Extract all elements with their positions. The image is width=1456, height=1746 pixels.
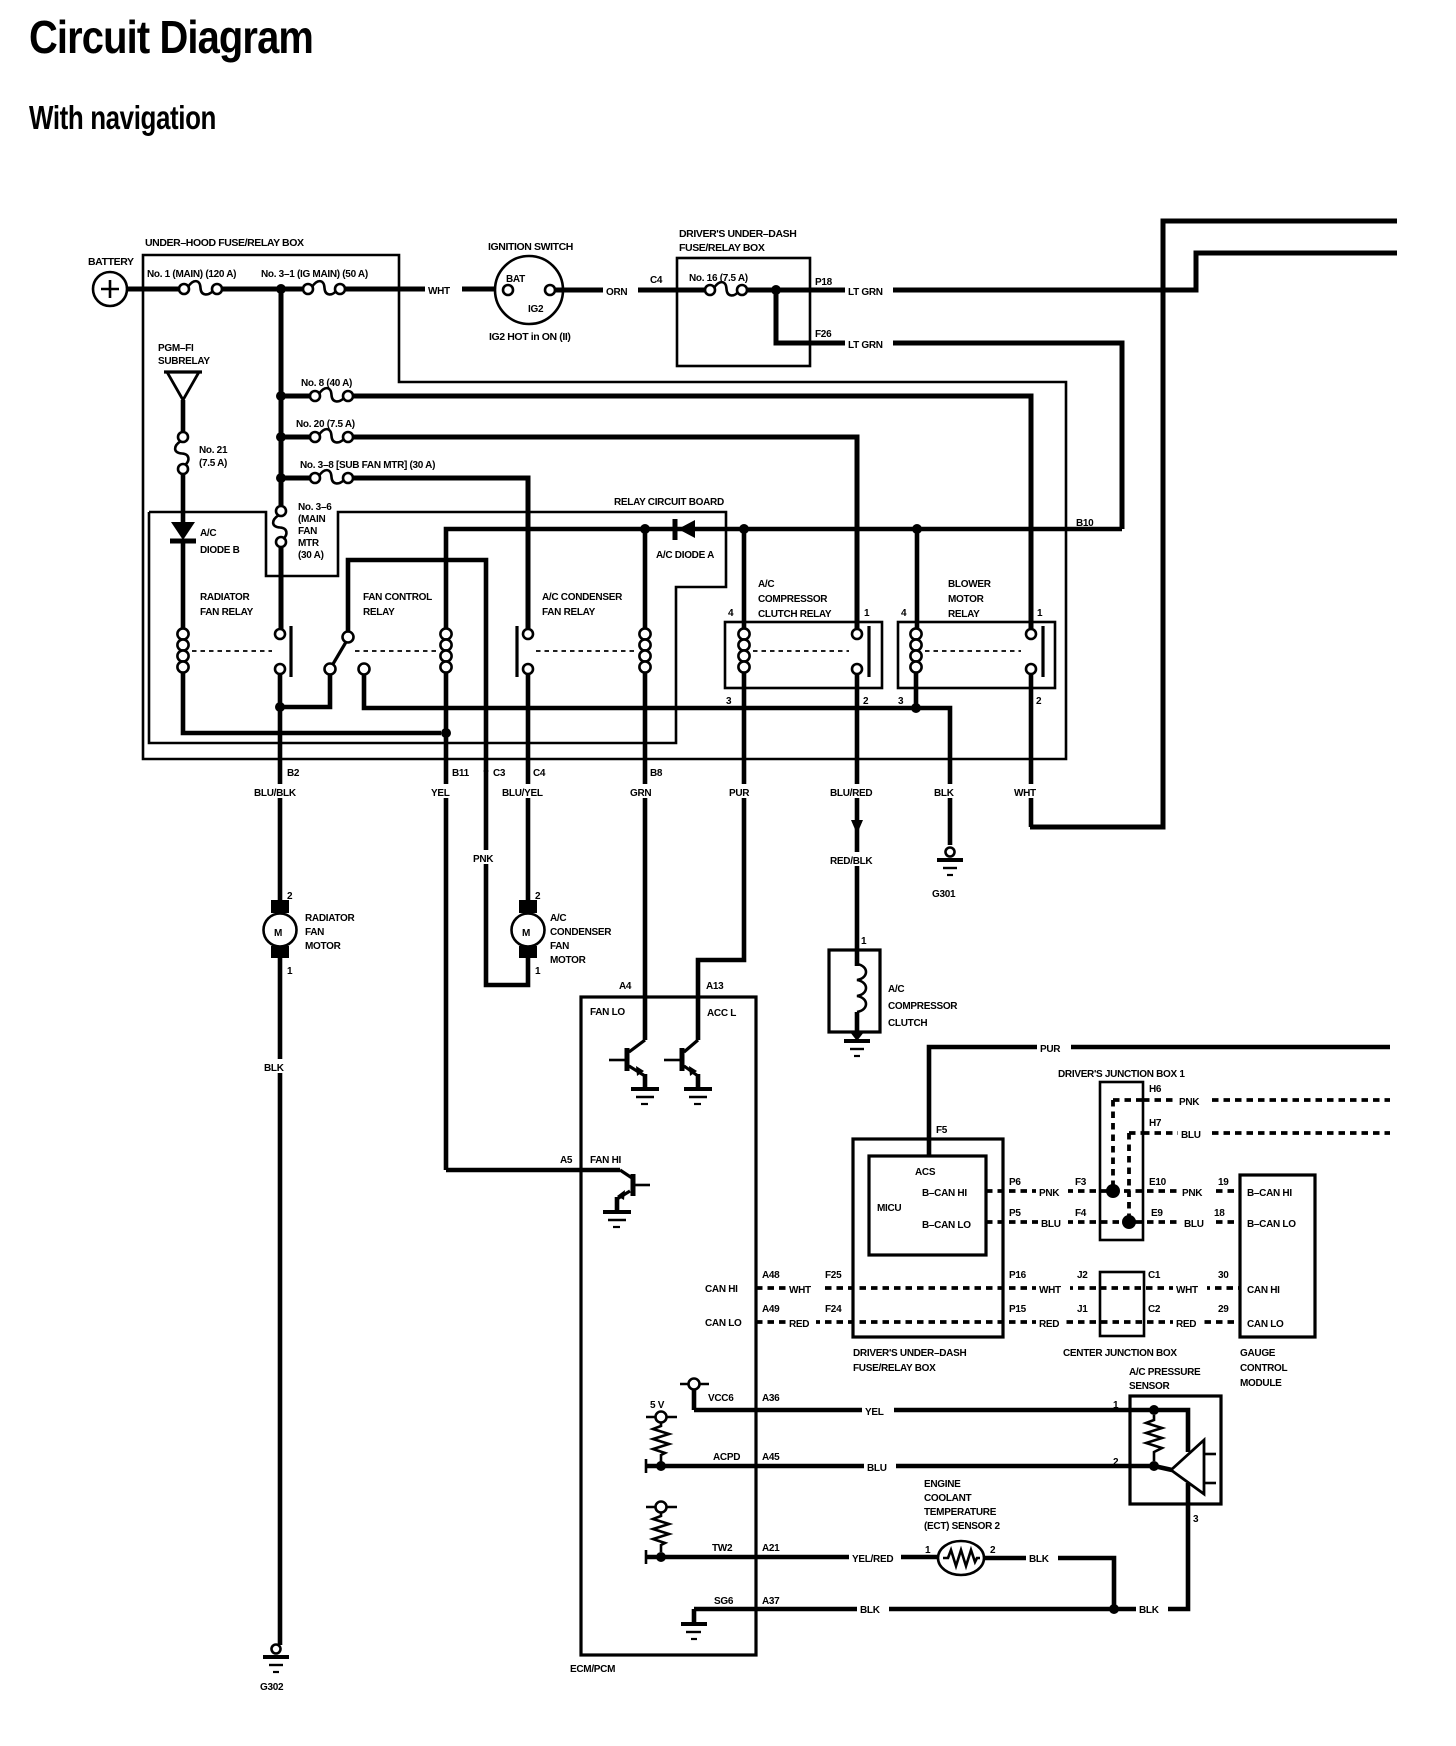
wire No.3-6 to radiator relay contact bbox=[279, 547, 284, 629]
svg-text:YEL/RED: YEL/RED bbox=[852, 1554, 893, 1565]
svg-text:A/C PRESSURE: A/C PRESSURE bbox=[1129, 1367, 1201, 1378]
svg-text:ACC L: ACC L bbox=[707, 1008, 736, 1019]
svg-text:No. 21: No. 21 bbox=[199, 445, 228, 456]
wire radiator coil bottom to B11 bus bbox=[183, 673, 441, 733]
svg-text:4: 4 bbox=[901, 608, 907, 619]
svg-text:P15: P15 bbox=[1009, 1304, 1027, 1315]
svg-text:2: 2 bbox=[535, 891, 541, 902]
svg-text:CONDENSER: CONDENSER bbox=[550, 927, 612, 938]
svg-text:IG2 HOT in ON (II): IG2 HOT in ON (II) bbox=[489, 331, 570, 343]
ground G302 bbox=[272, 1645, 281, 1654]
ground SG6 bbox=[692, 1609, 697, 1623]
svg-text:ACPD: ACPD bbox=[713, 1452, 740, 1463]
center junction box bbox=[1100, 1272, 1144, 1336]
node No.3-8 junction bbox=[276, 473, 286, 483]
wire fan control right contact to ground bus bbox=[364, 674, 950, 845]
svg-text:1: 1 bbox=[1113, 1400, 1119, 1411]
node sensor pin2 bbox=[1149, 1461, 1159, 1471]
wire subrelay to fuse No.21 bbox=[181, 400, 186, 432]
svg-text:SUBRELAY: SUBRELAY bbox=[158, 356, 210, 367]
svg-text:MOTOR: MOTOR bbox=[948, 594, 985, 605]
driver's under-dash fuse/relay box (top) bbox=[677, 258, 810, 366]
wire fan control coil top to feed bus bbox=[446, 529, 1122, 629]
svg-text:2: 2 bbox=[287, 891, 293, 902]
svg-text:P18: P18 bbox=[815, 277, 833, 288]
svg-text:BLU/YEL: BLU/YEL bbox=[502, 788, 543, 799]
svg-text:P16: P16 bbox=[1009, 1270, 1027, 1281]
svg-text:FAN: FAN bbox=[305, 927, 324, 938]
label WHT (blower) bbox=[1012, 784, 1050, 798]
wire SG6 BLK to pressure sensor pin3 bbox=[694, 1483, 1188, 1609]
label BLK (G301) bbox=[932, 784, 965, 798]
svg-text:IGNITION SWITCH: IGNITION SWITCH bbox=[488, 241, 573, 253]
svg-text:G302: G302 bbox=[260, 1682, 284, 1693]
svg-text:PNK: PNK bbox=[1179, 1097, 1200, 1108]
svg-text:CENTER JUNCTION BOX: CENTER JUNCTION BOX bbox=[1063, 1348, 1177, 1359]
svg-text:A/C: A/C bbox=[758, 579, 774, 590]
svg-text:RADIATOR: RADIATOR bbox=[200, 592, 251, 603]
wire blower coil feed down bbox=[915, 529, 920, 629]
battery bbox=[93, 272, 127, 306]
label BLU/YEL bbox=[500, 784, 556, 798]
svg-text:COMPRESSOR: COMPRESSOR bbox=[888, 1001, 958, 1012]
svg-text:1: 1 bbox=[1037, 608, 1043, 619]
wire condenser contact bottom to C4 bbox=[526, 674, 531, 900]
svg-text:2: 2 bbox=[1113, 1457, 1119, 1468]
svg-text:A37: A37 bbox=[762, 1596, 780, 1607]
svg-text:BLU/RED: BLU/RED bbox=[830, 788, 872, 799]
transistor ACC L bbox=[684, 1040, 698, 1052]
svg-text:CLUTCH RELAY: CLUTCH RELAY bbox=[758, 609, 832, 620]
svg-text:2: 2 bbox=[863, 696, 869, 707]
motor radiator fan motor bbox=[271, 900, 289, 913]
svg-text:BLU/BLK: BLU/BLK bbox=[254, 788, 297, 799]
fuse No.3-6 (MAIN FAN MTR) (30 A) vertical bbox=[276, 506, 286, 516]
svg-text:BLK: BLK bbox=[934, 788, 955, 799]
svg-text:E10: E10 bbox=[1149, 1177, 1167, 1188]
wire diode B to radiator relay coil bbox=[181, 543, 186, 629]
label BLU/RED bbox=[828, 784, 886, 798]
svg-text:WHT: WHT bbox=[428, 286, 450, 297]
contact condenser fan relay bbox=[523, 629, 533, 639]
node compressor coil feed bbox=[739, 524, 749, 534]
label BLK (sensor ground) bbox=[1136, 1602, 1168, 1615]
svg-text:A21: A21 bbox=[762, 1543, 780, 1554]
contact radiator relay bbox=[275, 629, 285, 639]
node TW2 junction bbox=[656, 1552, 666, 1562]
svg-text:P5: P5 bbox=[1009, 1208, 1021, 1219]
relay circuit board outline bbox=[149, 512, 726, 743]
svg-text:RELAY CIRCUIT BOARD: RELAY CIRCUIT BOARD bbox=[614, 497, 724, 508]
svg-text:ACS: ACS bbox=[915, 1167, 936, 1178]
label WHT bbox=[425, 283, 462, 296]
svg-text:YEL: YEL bbox=[431, 788, 450, 799]
svg-text:1: 1 bbox=[535, 966, 541, 977]
svg-text:FUSE/RELAY BOX: FUSE/RELAY BOX bbox=[853, 1363, 936, 1374]
svg-text:1: 1 bbox=[864, 608, 870, 619]
svg-text:J1: J1 bbox=[1077, 1304, 1088, 1315]
svg-text:BLU: BLU bbox=[1184, 1219, 1204, 1230]
svg-text:CAN LO: CAN LO bbox=[705, 1318, 742, 1329]
wire No.20 row to compressor clutch relay contact bbox=[353, 437, 857, 629]
label RED/BLK bbox=[827, 852, 887, 866]
svg-text:WHT: WHT bbox=[1039, 1285, 1061, 1296]
svg-text:WHT: WHT bbox=[1014, 788, 1036, 799]
contact compressor clutch relay bbox=[852, 629, 862, 639]
coil compressor clutch relay bbox=[738, 628, 749, 639]
label BLU/BLK bbox=[251, 784, 309, 798]
svg-text:CLUTCH: CLUTCH bbox=[888, 1018, 927, 1029]
svg-text:DIODE B: DIODE B bbox=[200, 545, 240, 556]
svg-text:A13: A13 bbox=[706, 981, 724, 992]
MICU box bbox=[869, 1156, 986, 1255]
wire pin1 to amplifier top bbox=[1154, 1410, 1188, 1452]
svg-text:M: M bbox=[274, 928, 282, 939]
svg-text:WHT: WHT bbox=[789, 1285, 811, 1296]
svg-text:A4: A4 bbox=[619, 981, 632, 992]
svg-text:PUR: PUR bbox=[1040, 1044, 1061, 1055]
wire P18 LT GRN to top right bbox=[810, 253, 1397, 290]
wire fuse16 to P18 bbox=[747, 288, 810, 293]
wire No.3-8 row to condenser fan contact bbox=[353, 478, 528, 629]
svg-text:(MAIN: (MAIN bbox=[298, 514, 325, 525]
svg-text:30: 30 bbox=[1218, 1270, 1229, 1281]
wire ignition to driver's box bbox=[555, 288, 677, 293]
resistor pressure sensor bbox=[1146, 1415, 1162, 1461]
coil blower motor relay bbox=[910, 628, 921, 639]
svg-text:RADIATOR: RADIATOR bbox=[305, 913, 356, 924]
svg-text:LT GRN: LT GRN bbox=[848, 340, 883, 351]
svg-text:A/C: A/C bbox=[200, 528, 216, 539]
wire condenser coil bottom to B8 bbox=[643, 672, 648, 1040]
TW2 terminal bbox=[646, 1506, 677, 1509]
svg-text:MOTOR: MOTOR bbox=[550, 955, 587, 966]
amplifier triangle pressure sensor bbox=[1171, 1440, 1204, 1494]
svg-text:18: 18 bbox=[1214, 1208, 1225, 1219]
ECM/PCM box bbox=[581, 997, 756, 1655]
svg-text:RED: RED bbox=[1176, 1319, 1196, 1330]
svg-text:M: M bbox=[522, 928, 530, 939]
under-hood fuse/relay box outline bbox=[143, 255, 1066, 759]
svg-text:B–CAN HI: B–CAN HI bbox=[1247, 1188, 1292, 1199]
label GRN bbox=[628, 784, 663, 798]
node ACPD junction bbox=[656, 1461, 666, 1471]
wire main vertical bus bbox=[279, 289, 284, 506]
svg-text:ECM/PCM: ECM/PCM bbox=[570, 1664, 615, 1675]
svg-text:H7: H7 bbox=[1149, 1118, 1162, 1129]
svg-text:BAT: BAT bbox=[506, 274, 525, 285]
svg-text:F24: F24 bbox=[825, 1304, 842, 1315]
coil condenser fan relay bbox=[639, 628, 650, 639]
wire B-CAN LO dashed BLU bbox=[986, 1220, 1240, 1224]
svg-text:B11: B11 bbox=[452, 768, 470, 779]
svg-text:TW2: TW2 bbox=[712, 1543, 733, 1554]
svg-text:No. 3–1 (IG MAIN) (50 A): No. 3–1 (IG MAIN) (50 A) bbox=[261, 269, 368, 280]
svg-text:BLU: BLU bbox=[1181, 1130, 1201, 1141]
svg-text:B–CAN LO: B–CAN LO bbox=[1247, 1219, 1296, 1230]
wire fuse3-1 to ignition switch bbox=[345, 287, 503, 292]
wire F26 LT GRN to B10 bbox=[810, 343, 1122, 529]
wire ECT BLK to BLK junction bbox=[984, 1558, 1114, 1609]
svg-text:MOTOR: MOTOR bbox=[305, 941, 342, 952]
svg-text:3: 3 bbox=[1193, 1514, 1199, 1525]
ground G301 bbox=[946, 848, 955, 857]
svg-text:B2: B2 bbox=[287, 768, 300, 779]
svg-text:CAN HI: CAN HI bbox=[1247, 1285, 1280, 1296]
resistor (pull-up TW2) bbox=[653, 1512, 669, 1552]
svg-text:E9: E9 bbox=[1151, 1208, 1163, 1219]
node blower coil feed bbox=[912, 524, 922, 534]
svg-text:DRIVER'S JUNCTION BOX 1: DRIVER'S JUNCTION BOX 1 bbox=[1058, 1069, 1185, 1080]
coil fan control relay bbox=[440, 628, 451, 639]
svg-text:5 V: 5 V bbox=[650, 1400, 665, 1411]
wire fuse No.21 to diode B bbox=[181, 474, 186, 522]
svg-text:With navigation: With navigation bbox=[29, 99, 216, 136]
relay A/C compressor clutch relay bbox=[725, 622, 882, 688]
svg-text:FAN: FAN bbox=[298, 526, 317, 537]
wire condenser coil feed down bbox=[643, 529, 648, 629]
wire battery to fuse box bbox=[127, 287, 179, 292]
svg-text:GRN: GRN bbox=[630, 788, 651, 799]
svg-text:B8: B8 bbox=[650, 768, 663, 779]
svg-text:CAN LO: CAN LO bbox=[1247, 1319, 1284, 1330]
wire compressor contact bottom BLU/RED bbox=[855, 674, 860, 950]
wire pin2 to amplifier apex bbox=[1154, 1466, 1172, 1470]
svg-text:LT GRN: LT GRN bbox=[848, 287, 883, 298]
svg-text:A/C CONDENSER: A/C CONDENSER bbox=[542, 592, 623, 603]
svg-text:BLK: BLK bbox=[860, 1605, 881, 1616]
svg-text:4: 4 bbox=[728, 608, 734, 619]
label PNK (C3 wire) bbox=[471, 850, 505, 864]
coil clutch bbox=[855, 950, 860, 966]
svg-text:A/C: A/C bbox=[888, 984, 904, 995]
svg-text:F25: F25 bbox=[825, 1270, 842, 1281]
svg-text:PNK: PNK bbox=[1182, 1188, 1203, 1199]
transistor FAN LO bbox=[629, 1040, 645, 1052]
svg-text:RED: RED bbox=[1039, 1319, 1059, 1330]
label PUR bbox=[727, 784, 761, 798]
svg-text:A48: A48 bbox=[762, 1270, 780, 1281]
svg-text:F3: F3 bbox=[1075, 1177, 1087, 1188]
svg-text:F4: F4 bbox=[1075, 1208, 1087, 1219]
node condenser coil feed bbox=[640, 524, 650, 534]
svg-text:MODULE: MODULE bbox=[1240, 1378, 1282, 1389]
svg-text:RELAY: RELAY bbox=[363, 607, 395, 618]
svg-text:VCC6: VCC6 bbox=[708, 1393, 734, 1404]
node main bus junction bbox=[276, 284, 286, 294]
svg-text:RED: RED bbox=[789, 1319, 809, 1330]
node blower coil pin3 junction bbox=[911, 703, 921, 713]
wire VCC6 YEL to pressure sensor pin1 bbox=[694, 1408, 1154, 1413]
node F26 branch junction bbox=[771, 285, 781, 295]
wire No.8 row to blower contact bbox=[353, 396, 1031, 629]
stub tick ACPD bbox=[645, 1459, 648, 1473]
motor A/C condenser fan motor bbox=[519, 900, 537, 913]
svg-text:UNDER–HOOD FUSE/RELAY BOX: UNDER–HOOD FUSE/RELAY BOX bbox=[145, 237, 304, 249]
A/C compressor clutch bbox=[829, 950, 880, 1032]
wire H7 dashed BLU off-page bbox=[1143, 1131, 1390, 1135]
svg-text:A/C DIODE A: A/C DIODE A bbox=[656, 550, 714, 561]
wire B2 down to radiator fan motor bbox=[278, 707, 283, 900]
svg-text:BLU: BLU bbox=[867, 1463, 887, 1474]
svg-text:ORN: ORN bbox=[606, 287, 627, 298]
svg-text:C2: C2 bbox=[1148, 1304, 1161, 1315]
svg-text:(ECT) SENSOR 2: (ECT) SENSOR 2 bbox=[924, 1521, 1001, 1532]
wire blower coil bottom to ground bus bbox=[914, 672, 919, 708]
svg-text:PNK: PNK bbox=[1039, 1188, 1060, 1199]
svg-text:A36: A36 bbox=[762, 1393, 780, 1404]
wire compressor coil feed down bbox=[742, 529, 747, 629]
switch fan control relay bbox=[343, 632, 354, 643]
svg-text:C4: C4 bbox=[533, 768, 546, 779]
wire CAN LO dashed RED bbox=[756, 1320, 1240, 1324]
wire blower contact bottom WHT bbox=[1029, 674, 1034, 827]
svg-text:PUR: PUR bbox=[729, 788, 750, 799]
svg-text:IG2: IG2 bbox=[528, 304, 544, 315]
node No.20 junction bbox=[276, 432, 286, 442]
wire C3 PNK to condenser motor pin1 bbox=[486, 770, 528, 985]
svg-text:FAN RELAY: FAN RELAY bbox=[200, 607, 254, 618]
svg-text:No. 3–8 [SUB FAN MTR] (30 A): No. 3–8 [SUB FAN MTR] (30 A) bbox=[300, 460, 435, 471]
wire fuse1 to junction bbox=[222, 287, 302, 292]
node splice BLU bbox=[1122, 1215, 1136, 1229]
svg-text:2: 2 bbox=[1036, 696, 1042, 707]
svg-text:J2: J2 bbox=[1077, 1270, 1088, 1281]
node B2 junction bbox=[275, 702, 285, 712]
wire B-CAN HI dashed PNK bbox=[986, 1189, 1240, 1193]
wire H6 dashed PNK off-page bbox=[1143, 1098, 1390, 1102]
svg-text:ENGINE: ENGINE bbox=[924, 1479, 961, 1490]
wire PUR branch to MICU F5 bbox=[929, 1047, 1390, 1157]
svg-text:Circuit Diagram: Circuit Diagram bbox=[29, 11, 313, 63]
svg-text:BLOWER: BLOWER bbox=[948, 579, 992, 590]
transistor FAN HI bbox=[620, 1170, 632, 1178]
svg-text:CAN HI: CAN HI bbox=[705, 1284, 738, 1295]
wire junction down to F26 bbox=[776, 290, 810, 343]
wire off-page top right bbox=[1030, 221, 1397, 827]
resistor (pull-up ACPD) bbox=[653, 1422, 669, 1462]
svg-text:COMPRESSOR: COMPRESSOR bbox=[758, 594, 828, 605]
svg-text:PGM–FI: PGM–FI bbox=[158, 343, 194, 354]
svg-text:FAN LO: FAN LO bbox=[590, 1007, 625, 1018]
svg-text:BATTERY: BATTERY bbox=[88, 256, 134, 268]
svg-text:H6: H6 bbox=[1149, 1084, 1162, 1095]
svg-text:3: 3 bbox=[898, 696, 904, 707]
svg-text:19: 19 bbox=[1218, 1177, 1229, 1188]
svg-text:2: 2 bbox=[990, 1545, 996, 1556]
wire color-change arrow BLU/RED to RED/BLK bbox=[851, 820, 863, 834]
svg-text:3: 3 bbox=[726, 696, 732, 707]
svg-text:TEMPERATURE: TEMPERATURE bbox=[924, 1507, 997, 1518]
label BLK bbox=[262, 1059, 295, 1073]
svg-text:RELAY: RELAY bbox=[948, 609, 980, 620]
wire B11 YEL to A5 bbox=[446, 1168, 620, 1173]
svg-text:A5: A5 bbox=[560, 1155, 573, 1166]
svg-text:PNK: PNK bbox=[473, 854, 494, 865]
svg-text:FUSE/RELAY BOX: FUSE/RELAY BOX bbox=[679, 242, 765, 254]
svg-text:1: 1 bbox=[861, 936, 867, 947]
svg-text:F5: F5 bbox=[936, 1125, 948, 1136]
node splice PNK bbox=[1106, 1184, 1120, 1198]
node coil-bus junction bbox=[441, 728, 451, 738]
svg-text:FAN CONTROL: FAN CONTROL bbox=[363, 592, 432, 603]
svg-text:FAN HI: FAN HI bbox=[590, 1155, 622, 1166]
wire junction box internal BLU riser bbox=[1127, 1133, 1131, 1222]
label ORN bbox=[603, 284, 638, 297]
stub tick TW2 bbox=[645, 1550, 648, 1564]
svg-text:No. 1 (MAIN) (120 A): No. 1 (MAIN) (120 A) bbox=[147, 269, 236, 280]
svg-text:BLK: BLK bbox=[264, 1063, 285, 1074]
contact blower motor relay bbox=[1026, 629, 1036, 639]
svg-text:1: 1 bbox=[925, 1545, 931, 1556]
ignition switch bbox=[495, 256, 563, 324]
wire compressor coil bottom to ACC L bbox=[698, 672, 744, 1040]
driver's under-dash fuse/relay box (lower) bbox=[853, 1139, 1003, 1337]
svg-text:1: 1 bbox=[287, 966, 293, 977]
diode A/C DIODE B bbox=[171, 522, 195, 540]
svg-text:(7.5 A): (7.5 A) bbox=[199, 458, 227, 469]
svg-text:MTR: MTR bbox=[298, 538, 320, 549]
svg-text:BLU: BLU bbox=[1041, 1219, 1061, 1230]
svg-text:G301: G301 bbox=[932, 889, 956, 900]
svg-text:FAN: FAN bbox=[550, 941, 569, 952]
svg-text:CONTROL: CONTROL bbox=[1240, 1363, 1288, 1374]
svg-text:SG6: SG6 bbox=[714, 1596, 734, 1607]
relay blower motor relay bbox=[898, 622, 1055, 688]
svg-text:SENSOR: SENSOR bbox=[1129, 1381, 1171, 1392]
svg-text:No. 3–6: No. 3–6 bbox=[298, 502, 332, 513]
node BLK junction bbox=[1109, 1604, 1119, 1614]
svg-text:DRIVER'S UNDER–DASH: DRIVER'S UNDER–DASH bbox=[679, 228, 796, 240]
svg-text:C4: C4 bbox=[650, 275, 663, 286]
node No.8 junction bbox=[276, 391, 286, 401]
wire junction box internal PNK riser bbox=[1111, 1100, 1115, 1191]
svg-text:MICU: MICU bbox=[877, 1203, 901, 1214]
diode A/C DIODE A bbox=[673, 519, 678, 540]
wire fan control common to C3 bbox=[348, 560, 486, 772]
svg-text:YEL: YEL bbox=[865, 1407, 884, 1418]
wire CAN HI dashed WHT bbox=[756, 1286, 1100, 1290]
svg-text:A/C: A/C bbox=[550, 913, 566, 924]
wire ACPD BLU to pressure sensor pin2 bbox=[646, 1464, 1154, 1469]
svg-text:C1: C1 bbox=[1148, 1270, 1161, 1281]
svg-text:B–CAN LO: B–CAN LO bbox=[922, 1220, 971, 1231]
svg-text:F26: F26 bbox=[815, 329, 832, 340]
wire radiator motor pin1 BLK to G302 bbox=[278, 958, 283, 1645]
svg-text:DRIVER'S UNDER–DASH: DRIVER'S UNDER–DASH bbox=[853, 1348, 966, 1359]
svg-text:FAN RELAY: FAN RELAY bbox=[542, 607, 596, 618]
svg-text:BLK: BLK bbox=[1139, 1605, 1160, 1616]
svg-text:C3: C3 bbox=[493, 768, 506, 779]
VCC6 terminal bbox=[680, 1383, 709, 1386]
svg-text:GAUGE: GAUGE bbox=[1240, 1348, 1276, 1359]
gauge control module box bbox=[1240, 1175, 1315, 1337]
ground below clutch bbox=[850, 1032, 864, 1041]
fuse No.21 (7.5 A) vertical bbox=[178, 432, 188, 442]
coil radiator relay bbox=[177, 628, 188, 639]
svg-text:COOLANT: COOLANT bbox=[924, 1493, 972, 1504]
wire radiator contact bottom net bbox=[280, 674, 330, 707]
wire fan control coil bottom to B11 bbox=[444, 672, 449, 1170]
svg-text:BLK: BLK bbox=[1029, 1554, 1050, 1565]
label YEL bbox=[430, 784, 462, 798]
svg-text:29: 29 bbox=[1218, 1304, 1229, 1315]
svg-text:WHT: WHT bbox=[1176, 1285, 1198, 1296]
svg-text:B–CAN HI: B–CAN HI bbox=[922, 1188, 967, 1199]
svg-text:(30 A): (30 A) bbox=[298, 550, 324, 561]
svg-text:A49: A49 bbox=[762, 1304, 780, 1315]
svg-text:P6: P6 bbox=[1009, 1177, 1021, 1188]
